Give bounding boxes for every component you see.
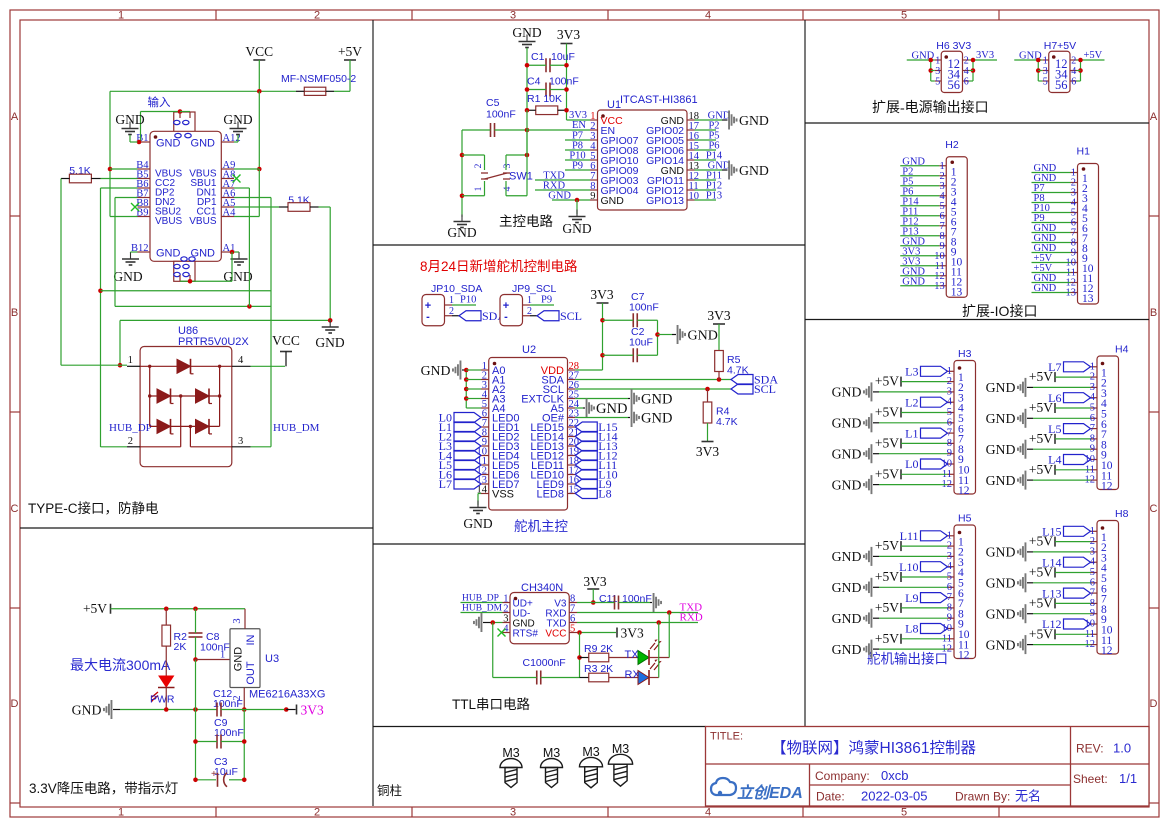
lead: [873, 391, 879, 393]
pin 4 stub: [948, 566, 955, 568]
pin 6 stub: [948, 586, 955, 588]
shell pin: [179, 275, 181, 281]
ground flag: [863, 578, 872, 597]
wire: [550, 64, 567, 66]
net flag L9: [575, 479, 597, 489]
junction: [1078, 68, 1083, 73]
pin B6 stub: [138, 187, 151, 189]
power bar: [110, 604, 112, 614]
pin 6 stub: [948, 422, 955, 424]
wire right vert: [243, 710, 245, 780]
svg-text:+5V: +5V: [1029, 626, 1053, 641]
pin 2 stub: [963, 59, 970, 61]
wire P5: [695, 139, 717, 141]
svg-text:+5V: +5V: [1029, 462, 1053, 477]
wire addr: [466, 369, 481, 371]
wire sw top right: [506, 154, 527, 156]
pin 10 stub: [948, 628, 955, 630]
svg-text:GND: GND: [986, 442, 1016, 457]
power bar 3V3: [296, 705, 298, 715]
svg-text:SCL: SCL: [754, 382, 776, 396]
pin 11 stub: [1091, 469, 1098, 471]
net flag L6: [454, 470, 481, 480]
svg-text:0xcb: 0xcb: [881, 768, 908, 783]
svg-text:TYPE-C接口，防静电: TYPE-C接口，防静电: [28, 500, 159, 516]
pin A7 stub: [221, 187, 234, 189]
JP10 pin1 stub: [445, 304, 453, 306]
net flag L14: [1064, 557, 1091, 567]
net flag L1: [454, 422, 481, 432]
svg-text:3: 3: [1043, 66, 1048, 77]
junction: [928, 68, 933, 73]
power bar r5: [713, 323, 725, 325]
power bar +5V: [900, 408, 902, 418]
svg-text:12: 12: [958, 485, 970, 497]
wire: [1077, 80, 1081, 82]
wire gnd drop: [576, 200, 578, 214]
wire CC1 down to gnd: [329, 207, 331, 320]
wire: [229, 779, 244, 781]
pin 13 stub: [481, 483, 489, 485]
resistor R5: [715, 351, 724, 372]
svg-text:3: 3: [510, 10, 516, 22]
junction: [193, 778, 198, 783]
header H6 body: [941, 51, 962, 92]
svg-text:A: A: [1150, 111, 1158, 123]
svg-text:2: 2: [128, 436, 133, 447]
svg-text:GND: GND: [986, 637, 1016, 652]
resistor lead: [310, 206, 319, 208]
pin 5 stub: [948, 412, 955, 414]
wire sw contact left bot: [484, 181, 486, 196]
wire EN vertical: [526, 110, 528, 155]
wire EXTCLK: [575, 398, 628, 400]
power bar +5V: [900, 438, 902, 448]
svg-text:GND: GND: [986, 545, 1016, 560]
pin 19 stub: [568, 455, 576, 457]
pin 7 stub: [481, 426, 489, 428]
capacitor C10: [537, 671, 541, 685]
svg-text:5: 5: [570, 624, 575, 635]
wire A5: [575, 407, 583, 409]
power bar +5V: [1054, 403, 1056, 413]
pin 10 stub: [948, 463, 955, 465]
pin 16 stub: [568, 483, 576, 485]
lead: [1027, 417, 1033, 419]
wire +5V: [1055, 572, 1091, 574]
wire P9: [565, 169, 590, 171]
wire DP across: [101, 290, 272, 292]
capacitor C1: [546, 58, 550, 72]
wire gnd: [695, 119, 723, 121]
svg-text:VCC: VCC: [545, 629, 566, 640]
header H4 body: [1097, 356, 1119, 490]
lead: [628, 398, 630, 400]
svg-text:H7+5V: H7+5V: [1044, 40, 1076, 52]
wire +5V bus: [1080, 60, 1082, 81]
wire P6: [695, 149, 717, 151]
pin 4 stub: [1091, 397, 1098, 399]
svg-text:L2: L2: [905, 395, 918, 409]
pin1 marker U2: [493, 362, 497, 366]
svg-text:GND: GND: [832, 385, 862, 400]
lead: [286, 709, 295, 711]
svg-text:GND: GND: [641, 411, 672, 427]
svg-text:B9: B9: [136, 207, 148, 218]
JP10 pin2 stub: [445, 315, 453, 317]
pin 1 stub: [1042, 59, 1049, 61]
svg-text:GND: GND: [156, 248, 181, 260]
net flag L8: [575, 489, 597, 499]
wire: [221, 741, 244, 743]
net flag L2: [921, 397, 948, 407]
svg-text:C1000nF: C1000nF: [523, 657, 566, 669]
svg-text:GND: GND: [986, 380, 1016, 395]
wire 3v3 vertical: [602, 303, 604, 370]
lead: [873, 648, 879, 650]
wire pin4 to VCC: [251, 365, 286, 367]
lead: [609, 677, 638, 679]
capacitor C3: [217, 773, 219, 787]
net flag L10: [575, 470, 597, 480]
wire +5V lead: [349, 60, 351, 91]
net flag L5: [454, 460, 481, 470]
svg-text:GND: GND: [832, 580, 862, 595]
ground flag oe: [631, 408, 640, 427]
wire GND: [1033, 644, 1091, 646]
pin 15 stub: [687, 149, 695, 151]
svg-text:GND: GND: [156, 138, 181, 150]
svg-text:12: 12: [1101, 645, 1113, 657]
shell ellipses: [174, 120, 180, 124]
pin 5 stub: [590, 159, 598, 161]
header H5 body: [954, 525, 976, 659]
pin 2 stub: [948, 381, 955, 383]
power flag VCC bar: [253, 59, 265, 61]
ground flag a5: [586, 399, 595, 418]
JP9 pin1 stub: [523, 304, 531, 306]
wire P8: [565, 149, 590, 151]
ground flag: [863, 547, 872, 566]
power bar +5V: [1054, 434, 1056, 444]
ground U2 vss: [470, 501, 487, 514]
svg-text:GND: GND: [832, 642, 862, 657]
power VCC bar: [280, 351, 292, 353]
wire shell top: [180, 111, 190, 113]
svg-text:3V3: 3V3: [696, 444, 719, 459]
wire: [718, 324, 720, 351]
svg-text:B: B: [1150, 307, 1157, 319]
power bar +5V: [900, 572, 902, 582]
header H7 body: [1049, 51, 1070, 92]
pin 21 stub: [568, 436, 576, 438]
pin 10 stub: [1091, 623, 1098, 625]
svg-text:1.0: 1.0: [1113, 741, 1131, 756]
wire: [527, 89, 546, 91]
svg-text:舵机主控: 舵机主控: [514, 519, 568, 534]
lead: [650, 602, 652, 604]
pin2 lead: [127, 446, 140, 448]
svg-text:3V3: 3V3: [557, 27, 580, 42]
svg-text:Sheet:: Sheet:: [1073, 772, 1108, 786]
pin1 marker: [154, 135, 158, 139]
svg-text:3: 3: [238, 436, 243, 447]
wire gnd: [695, 169, 723, 171]
pin 2 stub: [1091, 541, 1098, 543]
junction: [137, 140, 142, 145]
svg-text:RTS#: RTS#: [513, 629, 539, 640]
svg-text:GND: GND: [601, 195, 625, 207]
junction: [242, 778, 247, 783]
wire VBUS top: [110, 90, 259, 92]
svg-text:立创EDA: 立创EDA: [737, 784, 803, 802]
wire: [541, 677, 580, 679]
junction: [525, 153, 530, 158]
svg-text:1: 1: [474, 186, 484, 191]
junction: [600, 318, 605, 323]
ground flag: [863, 475, 872, 494]
svg-text:GND: GND: [832, 611, 862, 626]
power bar v3: [587, 588, 599, 590]
pin 1 stub: [1091, 530, 1098, 532]
pin 3 stub: [503, 622, 511, 624]
lead: [452, 315, 459, 317]
lead: [1027, 386, 1033, 388]
wire GND: [879, 391, 948, 393]
usb-uart CH340N body: [510, 593, 569, 644]
junction: [464, 396, 469, 401]
ground flag: [863, 413, 872, 432]
junction: [164, 707, 169, 712]
svg-text:Date:: Date:: [816, 790, 845, 804]
internal junction: [189, 425, 192, 428]
wire sw bot left: [462, 195, 485, 197]
svg-text:HUB_DM: HUB_DM: [273, 422, 320, 434]
wire vcc down: [579, 633, 581, 678]
wire input top: [141, 111, 181, 113]
wire vcc: [577, 632, 616, 634]
pin 10 stub: [481, 455, 489, 457]
wire gnd pin3: [493, 622, 503, 624]
wire SDA: [575, 379, 731, 381]
svg-text:-: -: [504, 311, 508, 323]
svg-text:L8: L8: [598, 487, 611, 501]
pin 1 stub: [503, 602, 511, 604]
pin 12 stub: [948, 648, 955, 650]
svg-text:3: 3: [510, 807, 516, 819]
svg-text:H8: H8: [1115, 508, 1129, 520]
pin 14 stub: [481, 493, 489, 495]
wire DN vertical: [114, 198, 116, 307]
wire +5V: [1055, 469, 1091, 471]
wire: [195, 609, 197, 633]
pin 1 stub: [481, 369, 489, 371]
wire P7: [1032, 192, 1071, 194]
svg-text:H1: H1: [1077, 146, 1091, 158]
pin 6 stub: [481, 417, 489, 419]
wire: [550, 89, 567, 91]
svg-text:输入: 输入: [148, 95, 171, 109]
svg-text:+5V: +5V: [875, 631, 899, 646]
lead: [1027, 582, 1033, 584]
lead: [1027, 479, 1033, 481]
svg-text:100nF: 100nF: [629, 302, 659, 314]
pin 6 stub: [590, 169, 598, 171]
net flag L2: [454, 432, 481, 442]
wire 3v3 vertical: [566, 44, 568, 121]
pin 8 stub: [1091, 602, 1098, 604]
wire 3V3: [969, 59, 997, 61]
junction: [705, 387, 710, 392]
lead: [583, 407, 585, 409]
svg-text:1: 1: [118, 10, 124, 22]
wire A1 to gnd: [234, 251, 239, 253]
svg-text:2: 2: [314, 807, 320, 819]
wire EN pin2: [527, 129, 590, 131]
capacitor C11: [615, 596, 619, 610]
net flag L12: [575, 451, 597, 461]
pin B12 stub: [138, 251, 151, 253]
svg-text:C: C: [1150, 503, 1158, 515]
svg-text:3V3: 3V3: [707, 308, 730, 323]
wire GND: [1033, 613, 1091, 615]
svg-text:GND: GND: [832, 477, 862, 492]
svg-text:R1 10K: R1 10K: [527, 93, 562, 105]
pin 11 stub: [481, 464, 489, 466]
ground flag: [863, 444, 872, 463]
wire DN1 vertical: [248, 188, 250, 306]
wire to A7: [234, 187, 249, 189]
wire: [1077, 70, 1081, 72]
junction: [490, 620, 495, 625]
pwm chip U2 body: [489, 358, 568, 511]
pin 8 stub: [948, 607, 955, 609]
wire: [195, 637, 197, 660]
lead: [1027, 551, 1033, 553]
wire to gnd: [658, 334, 673, 336]
wire P2: [900, 175, 939, 177]
wire DN2: [115, 197, 138, 199]
svg-text:4: 4: [503, 186, 513, 191]
junction: [193, 707, 198, 712]
junction: [1078, 58, 1083, 63]
lead: [672, 334, 676, 336]
lead: [165, 688, 167, 710]
pin 28 stub: [568, 369, 576, 371]
wire sw contact right top: [505, 155, 507, 170]
svg-text:P9: P9: [572, 161, 583, 172]
lead: [722, 169, 728, 171]
wire addr: [466, 388, 481, 390]
pin B5 stub: [138, 178, 151, 180]
svg-text:8月24日新增舵机控制电路: 8月24日新增舵机控制电路: [420, 259, 578, 274]
internal junction: [218, 365, 221, 368]
svg-text:VCC: VCC: [245, 44, 273, 59]
svg-text:3.3V降压电路，带指示灯: 3.3V降压电路，带指示灯: [29, 781, 178, 796]
wire VDD: [575, 369, 602, 371]
wire P11: [695, 179, 717, 181]
svg-text:L1: L1: [905, 426, 918, 440]
wire P12: [695, 189, 717, 191]
pin 3 stub: [935, 70, 942, 72]
lead: [530, 315, 537, 317]
pin 18 stub: [568, 464, 576, 466]
svg-text:+5V: +5V: [1029, 400, 1053, 415]
wire GND: [900, 165, 939, 167]
svg-text:1: 1: [449, 295, 454, 306]
svg-text:L0: L0: [905, 457, 918, 471]
svg-text:GND: GND: [463, 516, 492, 531]
svg-text:GND: GND: [72, 702, 102, 717]
wire sw contact left top: [484, 155, 486, 170]
junction: [564, 63, 569, 68]
junction: [564, 87, 569, 92]
pin 4 stub: [503, 632, 511, 634]
resistor R3: [589, 673, 609, 682]
junction: [717, 377, 722, 382]
pin A12 stub: [221, 141, 234, 143]
power bar +5V: [1054, 568, 1056, 578]
net flag SCL right: [731, 384, 753, 394]
capacitor C9: [217, 735, 221, 749]
pin 16 stub: [687, 139, 695, 141]
wire tx up: [668, 613, 670, 658]
svg-text:+: +: [211, 769, 217, 780]
pin 2 stub: [1071, 182, 1078, 184]
svg-text:【物联网】鸿蒙HI3861控制器: 【物联网】鸿蒙HI3861控制器: [771, 739, 976, 757]
pin 1 stub: [939, 165, 946, 167]
junction: [464, 387, 469, 392]
net flag L10: [921, 562, 948, 572]
resistor R9: [589, 653, 609, 662]
shell ellipses bottom1: [174, 264, 180, 268]
capacitor C2: [633, 348, 637, 362]
pin 3 stub: [1042, 70, 1049, 72]
wire caps right vert: [657, 320, 659, 355]
wire HUB_DP: [461, 602, 503, 604]
net flag L15: [1064, 526, 1091, 536]
junction: [656, 620, 661, 625]
resistor 5.1K right: [288, 203, 310, 212]
net flag L3: [454, 441, 481, 451]
ground flag reg: [103, 700, 112, 719]
wire: [593, 602, 614, 604]
pin A4 stub: [221, 216, 234, 218]
internal junction: [179, 394, 182, 397]
pin1 marker H3: [958, 366, 962, 370]
svg-text:1: 1: [118, 807, 124, 819]
wire GND: [900, 285, 939, 287]
svg-text:TX: TX: [625, 649, 640, 661]
wire P6: [900, 195, 939, 197]
wire addr bus: [465, 370, 467, 408]
lead: [873, 555, 879, 557]
svg-text:+5V: +5V: [875, 466, 899, 481]
pin 1 stub: [590, 119, 598, 121]
svg-text:4: 4: [705, 807, 711, 819]
pin 4 stub: [590, 149, 598, 151]
svg-text:ITCAST-HI3861: ITCAST-HI3861: [620, 94, 698, 106]
ground flag caps: [677, 325, 686, 344]
lead: [873, 422, 879, 424]
pin1 marker ch340: [514, 597, 518, 601]
junction: [188, 279, 193, 284]
screw M3 4: [608, 754, 632, 786]
pin 9 stub: [1071, 252, 1078, 254]
svg-text:IN: IN: [245, 634, 257, 645]
svg-text:GND: GND: [421, 363, 451, 378]
pin 6 stub: [1091, 582, 1098, 584]
